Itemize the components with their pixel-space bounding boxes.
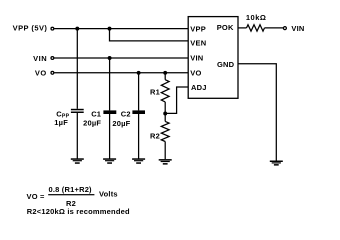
svg-text:Volts: Volts [99, 190, 118, 199]
wire C2 drop [138, 73, 140, 111]
svg-text:R1: R1 [150, 87, 160, 96]
svg-text:20µF: 20µF [112, 119, 130, 128]
resistor R2 [161, 121, 169, 141]
svg-text:VIN: VIN [190, 53, 203, 62]
svg-text:R2<120kΩ is recommended: R2<120kΩ is recommended [27, 207, 130, 216]
resistor 10k [247, 25, 265, 31]
formula fraction bar [48, 194, 94, 195]
capacitor C2 plates [132, 110, 145, 114]
terminal VO [51, 71, 54, 74]
svg-text:POK: POK [217, 23, 234, 32]
node junction R1/R2/ADJ [163, 112, 167, 116]
svg-text:C2: C2 [121, 110, 131, 119]
wire Cpp to ground [76, 113, 78, 159]
terminal VIN [51, 57, 54, 60]
wire R2 top [164, 114, 166, 122]
svg-text:VIN: VIN [291, 24, 304, 33]
wire GND [238, 64, 276, 161]
wire VIN rail [54, 57, 188, 59]
ground GND pin [270, 161, 283, 163]
wire POK [238, 27, 247, 29]
ground R2 [159, 159, 172, 161]
svg-text:1µF: 1µF [54, 118, 68, 127]
wire VPP rail [54, 28, 188, 30]
wire C1 drop [109, 58, 111, 110]
ground C2 [132, 158, 145, 160]
capacitor Cpp plates [71, 109, 84, 111]
wire R1 top [164, 73, 166, 80]
terminal VPP (5V) [51, 27, 54, 30]
ground Cpp [71, 158, 84, 160]
node junction VIN/C1 [108, 56, 112, 60]
ground C1 [103, 158, 116, 160]
wire C1 to ground [109, 114, 111, 159]
capacitor C1 plates [103, 110, 116, 114]
svg-text:VPP: VPP [190, 25, 206, 34]
svg-text:20µF: 20µF [83, 118, 101, 127]
node junction VO/R1 [163, 71, 167, 75]
svg-text:C1: C1 [91, 110, 101, 119]
wire Cpp drop [76, 29, 78, 109]
svg-text:GND: GND [217, 60, 235, 69]
svg-text:VIN: VIN [33, 54, 47, 63]
wire R1 bottom [164, 102, 166, 114]
svg-text:VO =: VO = [27, 192, 46, 201]
svg-text:ADJ: ADJ [191, 83, 207, 92]
wire C2 to ground [138, 114, 140, 159]
svg-text:VO: VO [190, 69, 201, 78]
svg-text:VPP (5V): VPP (5V) [13, 24, 48, 33]
svg-text:10kΩ: 10kΩ [246, 13, 267, 22]
svg-text:VO: VO [35, 68, 47, 77]
terminal VIN right [283, 27, 286, 30]
wire ADJ [165, 87, 188, 113]
node junction VPP/VEN [108, 27, 112, 31]
regulator IC U1 [188, 17, 238, 99]
wire VEN branch [110, 29, 189, 41]
node junction VO/C2 [137, 71, 141, 75]
wire POK to VIN terminal [265, 27, 284, 29]
svg-text:0.8 (R1+R2): 0.8 (R1+R2) [49, 185, 93, 194]
wire R2 to ground [164, 142, 166, 160]
node junction VPP/Cpp [75, 27, 79, 31]
svg-text:VEN: VEN [190, 39, 206, 48]
wire VO rail [54, 72, 188, 74]
resistor R1 [161, 80, 169, 102]
svg-text:R2: R2 [150, 131, 160, 140]
